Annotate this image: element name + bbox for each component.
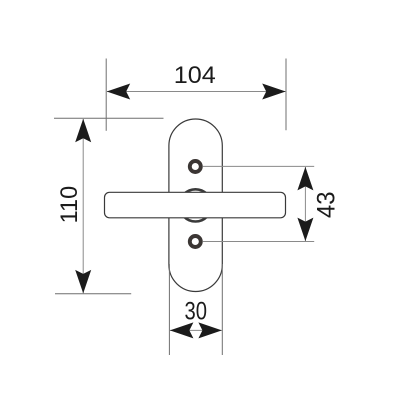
svg-text:104: 104 <box>174 62 216 89</box>
extension line right of 30 dim <box>221 264 223 355</box>
handle neck boss circle (behind lever) <box>179 189 211 221</box>
dimension line 30 <box>170 329 222 331</box>
extension line left of 104 dim <box>105 59 107 131</box>
arrow 30 left <box>170 322 194 338</box>
dimension line 110 <box>82 119 84 293</box>
leader line from upper screw <box>203 165 314 167</box>
dimension line 104 <box>107 91 285 93</box>
arrow 43 down <box>297 218 313 242</box>
arrow 43 up <box>297 167 313 191</box>
arrow 104 right <box>262 84 286 100</box>
arrow 30 right <box>198 322 222 338</box>
arrow 110 down <box>75 270 91 294</box>
svg-text:110: 110 <box>56 186 83 224</box>
extension line bottom of 110 dim <box>55 293 131 295</box>
lever handle bar <box>105 192 286 218</box>
lower screw hole <box>190 236 201 247</box>
arrow 104 left <box>107 84 131 100</box>
backplate (stadium shaped escutcheon) <box>169 119 222 292</box>
svg-text:43: 43 <box>313 191 341 218</box>
leader line from lower screw <box>203 241 314 243</box>
extension line left of 30 dim <box>168 264 170 355</box>
dimension line 43 <box>304 167 306 241</box>
arrow 110 up <box>75 119 91 143</box>
svg-text:30: 30 <box>184 298 207 326</box>
extension line right of 104 dim <box>285 59 287 131</box>
extension line top of 110 dim <box>54 117 164 119</box>
upper screw hole <box>190 161 201 172</box>
